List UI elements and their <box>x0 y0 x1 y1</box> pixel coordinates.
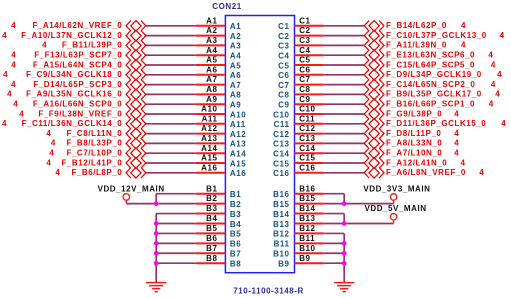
svg-text:4: 4 <box>11 60 16 69</box>
svg-text:4: 4 <box>13 100 18 109</box>
svg-text:C1: C1 <box>299 16 310 25</box>
svg-text:A9: A9 <box>230 101 241 110</box>
svg-text:C8: C8 <box>278 91 289 100</box>
svg-text:F_A11/L39N_0: F_A11/L39N_0 <box>386 41 447 50</box>
svg-text:C9: C9 <box>299 95 310 104</box>
svg-text:B1: B1 <box>230 190 241 199</box>
svg-text:A14: A14 <box>201 144 217 153</box>
svg-text:4: 4 <box>495 90 500 99</box>
svg-text:4: 4 <box>11 80 16 89</box>
svg-text:4: 4 <box>461 21 466 30</box>
svg-text:B5: B5 <box>230 230 241 239</box>
svg-text:4: 4 <box>11 21 16 30</box>
svg-text:4: 4 <box>49 149 54 158</box>
svg-text:C14: C14 <box>273 150 289 159</box>
svg-text:C8: C8 <box>299 85 310 94</box>
svg-text:F_B11/L39P_0: F_B11/L39P_0 <box>62 41 122 50</box>
svg-text:C15: C15 <box>273 159 289 168</box>
svg-text:A4: A4 <box>206 46 217 55</box>
svg-text:4: 4 <box>491 80 496 89</box>
svg-text:4: 4 <box>55 168 60 177</box>
svg-text:C13: C13 <box>299 134 315 143</box>
svg-text:F_C7/L10P_0: F_C7/L10P_0 <box>66 149 122 158</box>
svg-text:B7: B7 <box>206 244 217 253</box>
svg-text:4: 4 <box>46 158 51 167</box>
svg-text:F_A16/L66N_SCP0_0: F_A16/L66N_SCP0_0 <box>33 100 122 109</box>
svg-text:A5: A5 <box>230 61 241 70</box>
svg-text:C3: C3 <box>299 36 310 45</box>
svg-text:A6: A6 <box>206 65 217 74</box>
svg-text:F_D9/L34P_GCLK19_0: F_D9/L34P_GCLK19_0 <box>386 70 482 79</box>
svg-text:A7: A7 <box>230 81 241 90</box>
svg-text:F_B14/L62P_0: F_B14/L62P_0 <box>386 21 447 30</box>
svg-text:F_C8/L11N_0: F_C8/L11N_0 <box>66 129 122 138</box>
svg-text:4: 4 <box>3 70 8 79</box>
svg-text:A15: A15 <box>201 154 217 163</box>
svg-text:C6: C6 <box>299 65 310 74</box>
svg-text:F_F13/L63P_SCP7_0: F_F13/L63P_SCP7_0 <box>34 51 122 60</box>
svg-text:4: 4 <box>454 149 459 158</box>
svg-text:4: 4 <box>489 100 494 109</box>
svg-text:4: 4 <box>461 158 466 167</box>
svg-text:A2: A2 <box>206 26 217 35</box>
svg-text:4: 4 <box>497 70 502 79</box>
svg-text:A11: A11 <box>230 120 246 129</box>
svg-text:B15: B15 <box>299 194 315 203</box>
svg-text:B9: B9 <box>299 254 310 263</box>
svg-text:B10: B10 <box>299 244 315 253</box>
svg-text:4: 4 <box>2 31 7 40</box>
svg-text:C2: C2 <box>299 26 310 35</box>
svg-text:C2: C2 <box>278 32 289 41</box>
svg-text:F_B8/L33P_0: F_B8/L33P_0 <box>66 139 122 148</box>
svg-text:A13: A13 <box>201 134 217 143</box>
svg-text:C10: C10 <box>273 110 289 119</box>
svg-text:C11: C11 <box>299 114 315 123</box>
svg-text:B12: B12 <box>273 230 289 239</box>
svg-text:F_A10/L37N_GCLK12_0: F_A10/L37N_GCLK12_0 <box>21 31 122 40</box>
svg-text:A2: A2 <box>230 32 241 41</box>
svg-text:A8: A8 <box>230 91 241 100</box>
svg-text:A8: A8 <box>206 85 217 94</box>
svg-text:C12: C12 <box>299 124 315 133</box>
svg-text:VDD_5V_MAIN: VDD_5V_MAIN <box>365 204 427 213</box>
svg-text:C1: C1 <box>278 22 289 31</box>
svg-text:F_G9/L38P_0: F_G9/L38P_0 <box>386 109 442 118</box>
svg-text:C12: C12 <box>273 130 289 139</box>
svg-text:A3: A3 <box>230 42 241 51</box>
svg-text:B11: B11 <box>274 240 290 249</box>
svg-text:A13: A13 <box>230 140 246 149</box>
svg-text:B15: B15 <box>273 200 289 209</box>
svg-text:B2: B2 <box>206 194 217 203</box>
svg-text:F_C11/L36N_GCLK14_0: F_C11/L36N_GCLK14_0 <box>22 119 123 128</box>
svg-text:B12: B12 <box>299 224 315 233</box>
svg-text:B14: B14 <box>273 210 289 219</box>
svg-text:F_A9/L35N_GCLK16_0: F_A9/L35N_GCLK16_0 <box>26 90 122 99</box>
svg-text:4: 4 <box>11 51 16 60</box>
svg-text:F_A12/L41N_0: F_A12/L41N_0 <box>386 158 447 167</box>
svg-text:VDD_12V_MAIN: VDD_12V_MAIN <box>98 184 165 193</box>
svg-text:F_B6/L8P_0: F_B6/L8P_0 <box>71 168 122 177</box>
svg-text:C7: C7 <box>299 75 310 84</box>
svg-text:A1: A1 <box>206 16 217 25</box>
svg-text:F_A8/L33N_0: F_A8/L33N_0 <box>386 139 442 148</box>
svg-text:F_A6/L8N_VREF_0: F_A6/L8N_VREF_0 <box>386 168 466 177</box>
svg-text:B8: B8 <box>230 260 241 269</box>
svg-text:4: 4 <box>7 90 12 99</box>
svg-text:C15: C15 <box>299 154 315 163</box>
svg-text:4: 4 <box>46 129 51 138</box>
svg-text:B7: B7 <box>230 250 241 259</box>
svg-text:F_B12/L41P_0: F_B12/L41P_0 <box>61 158 122 167</box>
svg-text:B11: B11 <box>299 234 315 243</box>
svg-text:F_C9/L34N_GCLK18_0: F_C9/L34N_GCLK18_0 <box>26 70 122 79</box>
svg-text:A14: A14 <box>230 150 246 159</box>
svg-text:F_E13/L63N_SCP6_0: F_E13/L63N_SCP6_0 <box>386 51 475 60</box>
svg-text:C7: C7 <box>278 81 289 90</box>
svg-text:A15: A15 <box>230 159 246 168</box>
svg-text:4: 4 <box>479 168 484 177</box>
svg-text:B16: B16 <box>299 184 315 193</box>
svg-text:B10: B10 <box>273 250 289 259</box>
svg-text:4: 4 <box>51 139 56 148</box>
svg-text:B3: B3 <box>230 210 241 219</box>
svg-text:4: 4 <box>42 41 47 50</box>
svg-text:A5: A5 <box>206 56 217 65</box>
svg-text:B1: B1 <box>206 184 217 193</box>
svg-text:F_C14/L65N_SCP2_0: F_C14/L65N_SCP2_0 <box>386 80 475 89</box>
svg-text:B6: B6 <box>230 240 241 249</box>
svg-text:F_F9/L38N_VREF_0: F_F9/L38N_VREF_0 <box>38 109 122 118</box>
svg-text:4: 4 <box>500 31 505 40</box>
svg-text:F_D11/L36P_GCLK15_0: F_D11/L36P_GCLK15_0 <box>386 119 486 128</box>
svg-text:B16: B16 <box>273 190 289 199</box>
svg-text:A12: A12 <box>230 130 246 139</box>
svg-text:F_A7/L10N_0: F_A7/L10N_0 <box>386 149 442 158</box>
svg-text:B8: B8 <box>206 254 217 263</box>
svg-text:F_B16/L66P_SCP1_0: F_B16/L66P_SCP1_0 <box>386 100 475 109</box>
svg-text:VDD_3V3_MAIN: VDD_3V3_MAIN <box>363 184 430 193</box>
svg-text:A7: A7 <box>206 75 217 84</box>
svg-text:B5: B5 <box>206 224 217 233</box>
svg-text:B4: B4 <box>206 214 217 223</box>
svg-text:F_C10/L37P_GCLK13_0: F_C10/L37P_GCLK13_0 <box>386 31 487 40</box>
svg-text:F_B9/L35P_GCLK17_0: F_B9/L35P_GCLK17_0 <box>386 90 482 99</box>
svg-text:4: 4 <box>491 60 496 69</box>
svg-text:C5: C5 <box>299 56 310 65</box>
svg-text:A6: A6 <box>230 71 241 80</box>
svg-text:A1: A1 <box>230 22 241 31</box>
svg-text:4: 4 <box>454 109 459 118</box>
svg-text:C16: C16 <box>299 163 315 172</box>
svg-text:4: 4 <box>454 139 459 148</box>
svg-text:C4: C4 <box>278 52 289 61</box>
svg-text:4: 4 <box>19 109 24 118</box>
svg-text:4: 4 <box>461 41 466 50</box>
svg-text:C4: C4 <box>299 46 310 55</box>
svg-text:F_D8/L11P_0: F_D8/L11P_0 <box>386 129 441 138</box>
svg-text:A3: A3 <box>206 36 217 45</box>
svg-text:B2: B2 <box>230 200 241 209</box>
svg-text:CON21: CON21 <box>212 2 241 11</box>
svg-text:B6: B6 <box>206 234 217 243</box>
svg-text:F_A15/L64N_SCP4_0: F_A15/L64N_SCP4_0 <box>33 60 122 69</box>
svg-text:C13: C13 <box>273 140 289 149</box>
svg-text:710-1100-3148-R: 710-1100-3148-R <box>233 287 304 296</box>
svg-text:A10: A10 <box>201 105 217 114</box>
svg-text:A16: A16 <box>201 163 217 172</box>
svg-text:C11: C11 <box>274 120 290 129</box>
svg-text:F_A14/L62N_VREF_0: F_A14/L62N_VREF_0 <box>32 21 122 30</box>
svg-text:B4: B4 <box>230 220 241 229</box>
svg-text:A11: A11 <box>202 114 218 123</box>
svg-text:A10: A10 <box>230 110 246 119</box>
svg-text:C14: C14 <box>299 144 315 153</box>
svg-text:A16: A16 <box>230 169 246 178</box>
svg-text:C6: C6 <box>278 71 289 80</box>
svg-text:B14: B14 <box>299 204 315 213</box>
svg-text:A4: A4 <box>230 52 241 61</box>
svg-text:B13: B13 <box>299 214 315 223</box>
svg-text:4: 4 <box>454 129 459 138</box>
svg-text:B3: B3 <box>206 204 217 213</box>
svg-text:C10: C10 <box>299 105 315 114</box>
svg-text:B9: B9 <box>278 260 289 269</box>
svg-text:C3: C3 <box>278 42 289 51</box>
svg-text:F_C15/L64P_SCP5_0: F_C15/L64P_SCP5_0 <box>386 60 475 69</box>
svg-text:F_D14/L65P_SCP3_0: F_D14/L65P_SCP3_0 <box>33 80 122 89</box>
svg-text:4: 4 <box>2 119 7 128</box>
svg-text:4: 4 <box>501 119 506 128</box>
svg-text:4: 4 <box>488 51 493 60</box>
svg-text:C9: C9 <box>278 101 289 110</box>
svg-text:C5: C5 <box>278 61 289 70</box>
svg-text:A12: A12 <box>201 124 217 133</box>
svg-text:B13: B13 <box>273 220 289 229</box>
svg-text:C16: C16 <box>273 169 289 178</box>
svg-text:A9: A9 <box>206 95 217 104</box>
